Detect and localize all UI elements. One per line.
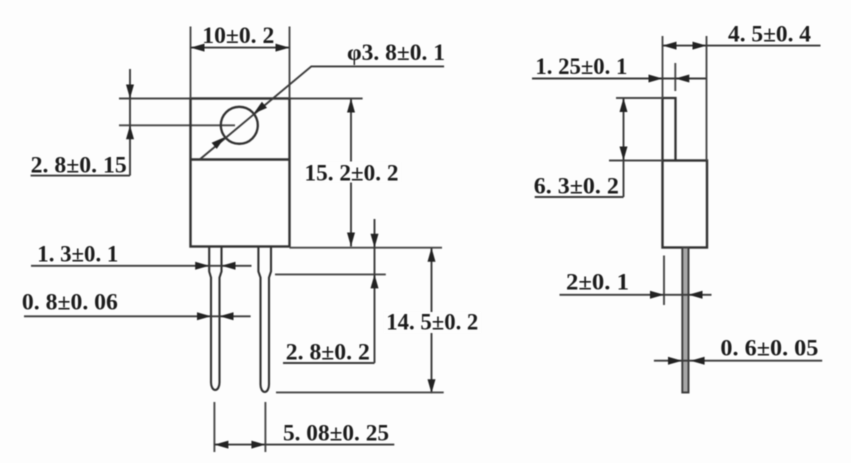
svg-text:5. 08±0. 25: 5. 08±0. 25	[283, 421, 389, 446]
dimension line 4.5±0.4 (body depth)	[663, 45, 821, 47]
svg-text:0. 6±0. 05: 0. 6±0. 05	[720, 336, 818, 361]
wire: extension line body-top left (6.3 dim)	[609, 160, 663, 162]
wire: extension line tab-left up (4.5 dim)	[662, 36, 664, 98]
label 15.2±0.2	[301, 162, 401, 183]
svg-text:2. 8±0. 2: 2. 8±0. 2	[286, 340, 370, 365]
wire: extension line lead shoulder end	[275, 273, 386, 275]
mounting hole circle	[221, 107, 258, 144]
wire: extension line tab-right up (1.25 dim)	[674, 63, 676, 91]
svg-text:2±0. 1: 2±0. 1	[566, 270, 629, 295]
body outline (front view)	[191, 99, 290, 247]
wire: extension line body-right up (4.5 dim)	[706, 36, 708, 161]
svg-text:6. 3±0. 2: 6. 3±0. 2	[534, 174, 619, 199]
svg-text:φ3. 8±0. 1: φ3. 8±0. 1	[347, 40, 445, 65]
wire: extension line left lead center (5.08 dim)	[213, 402, 215, 452]
label 2.8±0.2	[283, 362, 375, 364]
left lead (front view)	[209, 247, 221, 391]
wire: extension line body-top left (to 2.8±0.15 dim)	[119, 98, 191, 100]
lead (side view)	[682, 248, 688, 393]
dimension line 15.2±0.2 (body height)	[350, 99, 352, 247]
dimension line 0.8±0.06 (lead width)	[24, 315, 251, 317]
svg-text:4. 5±0. 4: 4. 5±0. 4	[728, 22, 812, 47]
tab (side view)	[663, 98, 676, 161]
dimension line 14.5±0.2 (lead length)	[431, 248, 433, 394]
wire: extension line tab-top left (6.3 dim)	[616, 97, 663, 99]
dimension line 2.8±0.2 (shoulder length)	[374, 219, 376, 363]
right lead (front view)	[258, 247, 271, 393]
wire: extension line body-bottom right (to 14.5 dim)	[290, 247, 443, 249]
wire: tab boundary line inside body	[191, 158, 290, 160]
dimension line 5.08±0.25 (lead pitch)	[214, 444, 394, 446]
label 14.5±0.2	[384, 312, 481, 333]
dimension line 1.3±0.1 (lead shoulder width)	[31, 265, 252, 267]
wire: extension line lead bottoms	[276, 391, 444, 393]
wire: extension line right (10 dim)	[289, 27, 291, 99]
label 6.3±0.2	[535, 196, 624, 198]
dimension line 2±0.1 (lead offset)	[560, 294, 712, 296]
wire: extension line left (10 dim)	[190, 27, 192, 99]
dimension line 0.6±0.05 (lead thickness)	[654, 360, 822, 362]
body (side view)	[663, 161, 708, 248]
svg-text:10±0. 2: 10±0. 2	[202, 23, 274, 48]
wire: extension line right lead center (5.08 dim)	[264, 402, 266, 452]
svg-text:1. 25±0. 1: 1. 25±0. 1	[535, 54, 627, 79]
wire: hole centerline	[119, 124, 235, 126]
svg-text:15. 2±0. 2: 15. 2±0. 2	[305, 161, 399, 186]
wire: extension line body-top right (to 15.2 dim)	[290, 98, 363, 100]
dimension line 1.25±0.1 (tab thickness)	[532, 78, 707, 80]
svg-text:2. 8±0. 15: 2. 8±0. 15	[31, 153, 127, 178]
leader line phi3.8±0.1	[200, 66, 444, 159]
svg-text:1. 3±0. 1: 1. 3±0. 1	[37, 242, 118, 267]
svg-text:0. 8±0. 06: 0. 8±0. 06	[22, 290, 118, 315]
dimension line 2.8±0.15 (hole position)	[129, 69, 131, 176]
dimension line 6.3±0.2 (tab height)	[623, 98, 625, 197]
svg-text:14. 5±0. 2: 14. 5±0. 2	[386, 310, 478, 335]
wire: extension line body-left down (2 dim)	[663, 256, 665, 306]
label 2.8±0.15	[31, 175, 130, 177]
dimension line 10±0.2	[191, 47, 290, 49]
